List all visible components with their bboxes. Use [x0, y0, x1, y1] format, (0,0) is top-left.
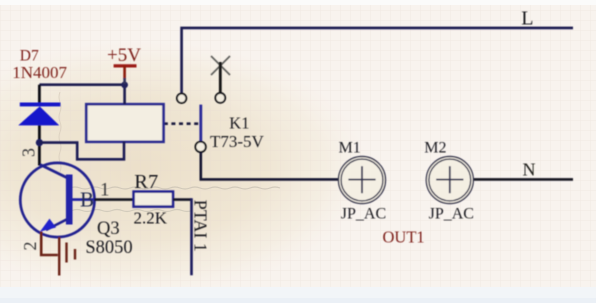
ground symbol	[41, 232, 75, 276]
svg-text:D7: D7	[20, 48, 39, 65]
diode D7	[18, 85, 60, 166]
resistor R7	[134, 192, 173, 207]
wire coil top pin	[123, 85, 126, 105]
svg-text:JP_AC: JP_AC	[341, 205, 386, 222]
svg-text:2: 2	[20, 242, 40, 251]
wire N net	[473, 178, 573, 181]
svg-text:L: L	[521, 8, 533, 30]
svg-text:K1: K1	[229, 113, 249, 132]
svg-text:PTAI 1: PTAI 1	[191, 200, 211, 252]
svg-text:S8050: S8050	[85, 238, 132, 258]
relay K1 armature	[199, 105, 202, 142]
svg-text:OUT1: OUT1	[383, 227, 425, 246]
junction dot diode/collector node	[36, 139, 43, 146]
relay K1 coil	[86, 104, 163, 142]
wire resistor to PTAI	[173, 198, 192, 201]
svg-text:R7: R7	[134, 171, 158, 193]
wire coil bottom to collector node	[39, 142, 124, 160]
svg-text:B: B	[80, 187, 94, 211]
svg-text:1N4007: 1N4007	[12, 63, 67, 82]
connector M1	[339, 157, 386, 204]
wire +5V node horizontal	[39, 83, 124, 86]
svg-text:T73-5V: T73-5V	[210, 132, 265, 151]
wire common contact to M1	[201, 152, 339, 179]
wire base pin	[94, 198, 133, 201]
svg-text:+5V: +5V	[107, 45, 141, 66]
svg-text:M1: M1	[339, 140, 361, 157]
svg-text:2.2K: 2.2K	[134, 208, 168, 227]
svg-text:1: 1	[100, 180, 110, 201]
power symbol +5V	[114, 66, 137, 84]
svg-text:JP_AC: JP_AC	[429, 205, 474, 222]
relay K1 NO contact pin	[215, 62, 225, 103]
no-ERC marker X	[211, 56, 230, 75]
svg-text:Q3: Q3	[97, 219, 120, 239]
relay K1 common contact	[195, 142, 205, 152]
relay K1 NC contact pin	[177, 94, 186, 103]
wire PTAI vertical	[190, 198, 193, 275]
wire L net top	[182, 28, 573, 94]
relay K1 actuation dashed link	[164, 122, 199, 125]
svg-text:N: N	[523, 159, 536, 179]
svg-text:M2: M2	[424, 140, 446, 157]
transistor Q3	[20, 163, 94, 237]
svg-text:3: 3	[19, 148, 39, 157]
junction dot +5V node	[121, 82, 128, 89]
connector M2	[426, 157, 473, 204]
